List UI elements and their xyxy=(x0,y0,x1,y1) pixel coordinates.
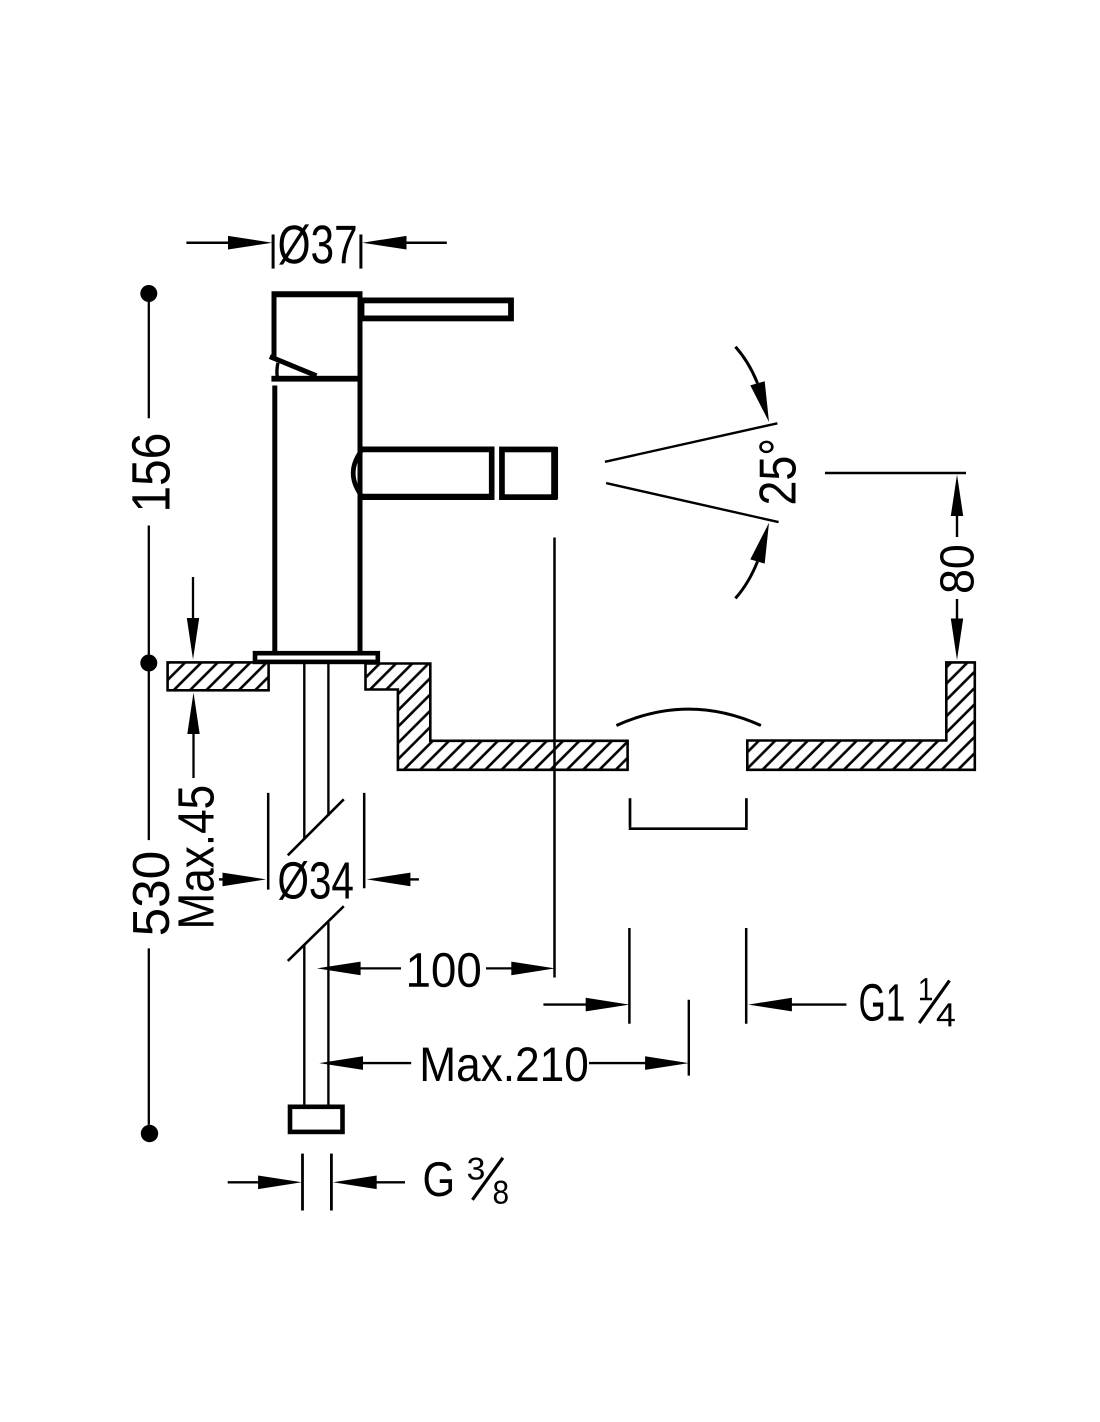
spout height reference line xyxy=(825,472,966,474)
dimension Ø34 right extension line xyxy=(363,793,366,888)
drain right extension line xyxy=(745,928,748,1024)
value label 1/4 denominator xyxy=(937,1003,955,1026)
wire 156 dimension line upper segment xyxy=(148,302,150,418)
dimension G 3/8 right tail xyxy=(375,1181,405,1183)
dimension Max.210 left arrowhead xyxy=(319,1056,363,1070)
dimension G1 1/4 right arrowhead xyxy=(748,998,792,1012)
dimension G 3/8 left tick xyxy=(301,1154,304,1211)
aerator right cap xyxy=(552,447,559,500)
supply pipe right line lower xyxy=(327,922,329,1104)
drain left extension line xyxy=(628,928,631,1024)
angle arc upper xyxy=(735,347,757,384)
dimension Ø37 left tick xyxy=(272,235,275,269)
dimension Max.210 right tail xyxy=(589,1062,646,1064)
bidet right wall and floor (hatched) xyxy=(747,662,975,769)
dimension chain dot middle (counter level) xyxy=(140,655,157,672)
dimension 100 left tail xyxy=(360,967,401,969)
value label 530 (rotated) xyxy=(133,853,170,934)
drain center extension line xyxy=(688,1000,690,1076)
dimension Ø37 right arrowhead xyxy=(362,236,406,250)
wire 530 dimension line upper segment xyxy=(148,672,150,841)
handle base diagonal split line xyxy=(270,357,317,376)
spray cone lower line xyxy=(606,483,779,522)
dimension chain dot bottom (530 lower end) xyxy=(141,1125,158,1142)
faucet body left edge lower xyxy=(272,386,277,652)
value label 156 (rotated) xyxy=(132,435,170,509)
value label 25 degrees (rotated) xyxy=(759,441,796,504)
angle arc upper arrowhead xyxy=(750,381,769,422)
dimension Ø37 right tail xyxy=(406,241,447,244)
handle base corner arc xyxy=(275,363,279,377)
bidet deck stepped section (hatched) xyxy=(366,664,628,770)
drain bracket bottom xyxy=(629,827,748,830)
wire 530 dimension line lower segment xyxy=(148,948,150,1124)
pipe break slash lower xyxy=(288,906,344,961)
value label G1 xyxy=(860,984,903,1021)
dimension Ø34 left extension line xyxy=(267,793,270,890)
spout left end arc xyxy=(353,448,364,500)
dimension Ø37 left arrowhead xyxy=(228,236,272,250)
spray cone upper line xyxy=(605,423,778,462)
dimension chain dot top (156 upper end) xyxy=(140,285,157,302)
dimension G1 1/4 left tail xyxy=(543,1003,588,1005)
supply pipe left line lower xyxy=(303,945,305,1105)
wire 156 dimension line lower segment xyxy=(148,526,150,655)
value label 1/4 numerator xyxy=(920,978,932,1000)
aerator outline xyxy=(502,449,554,497)
drain bracket left xyxy=(629,798,632,827)
value label 80 (rotated) xyxy=(940,546,974,592)
bidet bowl rim arc xyxy=(616,709,761,725)
value label 3/8 slash xyxy=(472,1158,503,1200)
supply pipe right line upper xyxy=(327,664,329,816)
faucet body top edge xyxy=(272,291,363,297)
dimension Max.210 right arrowhead xyxy=(645,1056,689,1070)
dimension G1 1/4 left arrowhead xyxy=(586,998,630,1012)
dimension 100 left arrowhead xyxy=(317,962,361,976)
dimension Ø34 right tail xyxy=(409,878,419,880)
base plate escutcheon xyxy=(255,653,378,662)
dimension 80 upper shaft xyxy=(956,514,958,537)
dimension 80 down arrowhead xyxy=(951,619,963,661)
value label G xyxy=(425,1162,452,1197)
dimension G 3/8 left arrowhead xyxy=(258,1176,302,1190)
angle arc lower xyxy=(735,562,757,599)
dimension Max.45 down arrow xyxy=(192,577,194,622)
spout bottom edge xyxy=(361,494,492,500)
dimension G 3/8 right arrowhead xyxy=(333,1176,377,1190)
value label 3/8 numerator xyxy=(468,1158,484,1180)
dimension Ø34 right arrowhead xyxy=(367,873,411,887)
supply pipe left line upper xyxy=(303,664,305,839)
countertop left slab (hatched) xyxy=(168,662,269,690)
value label Ø34 xyxy=(279,861,353,900)
value label Max.210 xyxy=(423,1047,587,1081)
drain bracket right xyxy=(745,798,748,827)
value label Max.45 (rotated) xyxy=(178,787,214,926)
value label 100 xyxy=(409,953,480,987)
pipe break slash upper xyxy=(288,799,344,855)
dimension Ø34 left tail xyxy=(219,878,228,880)
faucet body left edge upper xyxy=(272,292,277,357)
dimension 80 lower shaft xyxy=(956,599,958,622)
dimension Max.45 up arrow xyxy=(187,693,199,735)
dimension Ø34 left arrowhead xyxy=(223,873,267,887)
dimension G 3/8 right tick xyxy=(330,1154,333,1211)
spout right end edge xyxy=(489,447,495,501)
dimension Ø37 right tick xyxy=(359,235,362,269)
value label 1/4 slash xyxy=(919,981,949,1024)
spout outlet extension line xyxy=(553,538,556,978)
value label Ø37 xyxy=(279,224,355,264)
dimension Ø37 left tail xyxy=(186,241,233,244)
dimension G1 1/4 right tail xyxy=(790,1003,846,1005)
handle lever outline xyxy=(362,300,512,318)
spout top edge xyxy=(359,446,492,452)
dimension Max.210 left tail xyxy=(362,1062,411,1064)
handle base joint band xyxy=(271,376,362,382)
value label 3/8 denominator xyxy=(494,1181,508,1204)
dimension G 3/8 left tail xyxy=(228,1181,260,1183)
dimension 100 right tail xyxy=(486,967,513,969)
angle arc lower arrowhead xyxy=(750,523,769,564)
dimension 100 right arrowhead xyxy=(511,962,555,976)
dimension 80 up arrowhead xyxy=(951,475,963,517)
connection nut xyxy=(290,1107,343,1132)
faucet body right edge xyxy=(358,292,363,652)
